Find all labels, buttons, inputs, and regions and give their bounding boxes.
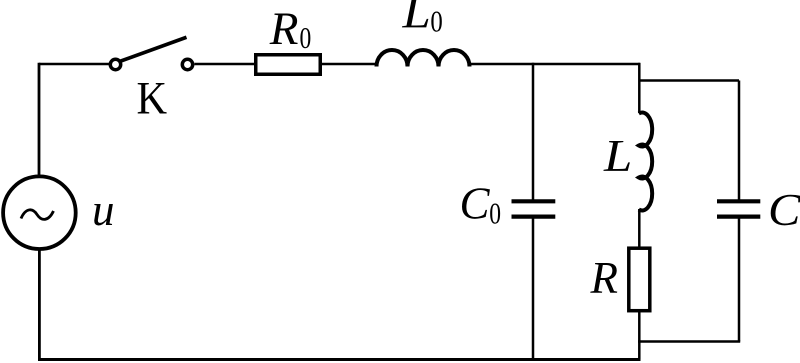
svg-text:L: L	[401, 0, 430, 38]
svg-text:C: C	[460, 179, 491, 229]
svg-text:u: u	[92, 185, 115, 235]
svg-text:R: R	[269, 3, 299, 55]
svg-text:0: 0	[430, 5, 442, 39]
svg-text:0: 0	[489, 195, 501, 230]
svg-text:K: K	[137, 71, 168, 124]
svg-text:R: R	[590, 253, 619, 303]
svg-text:C: C	[768, 186, 800, 236]
svg-text:L: L	[603, 132, 632, 182]
svg-text:0: 0	[300, 20, 312, 55]
